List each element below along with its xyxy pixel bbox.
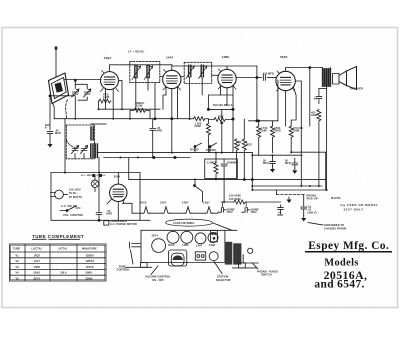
svg-text:150V: 150V [227,210,234,214]
svg-text:OCTAL: OCTAL [59,247,68,251]
svg-text:PICK-UP: PICK-UP [307,196,318,200]
svg-text:SELECTOR: SELECTOR [216,278,231,282]
svg-text:Espey Mfg. Co.: Espey Mfg. Co. [308,240,389,252]
svg-text:OHM: OHM [293,129,299,133]
svg-text:250MMF: 250MMF [227,161,238,165]
svg-text:OHM: OHM [311,113,317,117]
svg-text:NOTE:: NOTE: [331,196,342,200]
svg-text:14B6: 14B6 [222,55,230,59]
svg-text:SWITCH: SWITCH [261,273,272,277]
svg-text:14Q7: 14Q7 [203,200,210,204]
svg-text:50A5: 50A5 [34,271,41,275]
svg-text:MFD: MFD [263,161,269,165]
svg-text:Cg USED ON MODEL: Cg USED ON MODEL [341,203,379,207]
svg-text:12BA6: 12BA6 [86,259,95,263]
svg-text:50B5: 50B5 [86,271,93,275]
svg-text:(599 V): (599 V) [308,211,317,215]
svg-text:1/2W: 1/2W [103,95,110,99]
svg-text:MFD: MFD [278,213,284,217]
svg-text:14A7: 14A7 [160,200,167,204]
svg-text:POT.: POT. [218,115,224,119]
svg-text:50A5: 50A5 [168,243,175,247]
svg-text:.002 MFD: .002 MFD [262,72,274,76]
svg-text:K: K [239,143,241,147]
svg-text:14B7: 14B7 [182,200,189,204]
svg-text:SPEAKER: SPEAKER [350,87,363,91]
svg-text:PHONO: PHONO [206,148,216,152]
svg-text:14Q7: 14Q7 [104,56,112,60]
svg-text:CONTROL: CONTROL [117,268,131,272]
svg-text:35W4: 35W4 [86,277,94,281]
svg-text:35L6: 35L6 [61,271,68,275]
svg-text:6547 ONLY: 6547 ONLY [344,207,364,211]
svg-text:14Q7: 14Q7 [209,243,216,247]
svg-text:V4: V4 [16,271,20,275]
svg-text:MEG: MEG [246,143,252,147]
svg-text:OHM: OHM [274,129,280,133]
svg-text:VOL. CONTROL: VOL. CONTROL [63,213,84,217]
svg-text:V1: V1 [16,253,20,257]
svg-text:12BE6: 12BE6 [86,253,95,257]
svg-text:I.F. = 455 KC: I.F. = 455 KC [128,50,144,54]
svg-text:14Q7: 14Q7 [34,253,41,257]
svg-text:14A7: 14A7 [34,259,41,263]
svg-text:A.C. SWITCH ON VOL.: A.C. SWITCH ON VOL. [81,174,106,177]
svg-text:LOCTAL: LOCTAL [32,247,43,251]
svg-text:12AT6: 12AT6 [86,265,94,269]
svg-text:OHM: OHM [195,124,201,128]
svg-text:ON - OFF: ON - OFF [152,278,164,282]
svg-text:25 WATTS: 25 WATTS [69,195,82,199]
svg-text:14A7: 14A7 [166,56,174,60]
svg-text:35Y4: 35Y4 [114,175,121,179]
svg-text:105-125V: 105-125V [69,188,81,192]
svg-text:1/2W: 1/2W [136,104,143,108]
svg-text:A.C. SW. ON: A.C. SW. ON [61,204,77,208]
svg-text:V5: V5 [16,277,20,281]
svg-text:TUBE COMPLEMENT: TUBE COMPLEMENT [32,234,84,239]
svg-text:150 OHM: 150 OHM [229,197,241,201]
svg-text:V3: V3 [16,265,20,269]
svg-text:MFD: MFD [285,161,291,165]
svg-text:and 6547.: and 6547. [314,279,364,291]
svg-text:500,000 MEG.A: 500,000 MEG.A [213,103,233,107]
svg-text:14B6: 14B6 [34,265,41,269]
svg-text:.02: .02 [313,97,317,101]
svg-text:2.2MEG: 2.2MEG [207,161,217,165]
svg-text:TUBE: TUBE [13,247,21,251]
svg-text:OHM: OHM [261,129,267,133]
svg-text:MFD: MFD [107,212,113,216]
svg-text:MFD: MFD [55,131,61,135]
svg-text:50A5: 50A5 [280,55,288,59]
svg-text:50-60 ~: 50-60 ~ [69,191,79,195]
svg-text:K: K [45,126,47,130]
svg-text:35Y4: 35Y4 [34,277,41,281]
svg-text:V2: V2 [16,259,20,263]
svg-text:35Y4: 35Y4 [152,234,159,238]
svg-text:MFD: MFD [157,129,163,133]
svg-text:LOOP ANTENNA: LOOP ANTENNA [173,221,194,225]
svg-text:CHASSIS FRAME: CHASSIS FRAME [324,226,347,230]
svg-text:Models: Models [324,257,358,268]
svg-text:150V: 150V [251,210,258,214]
svg-text:50A5: 50A5 [140,200,147,204]
svg-text:14B6: 14B6 [182,243,189,247]
svg-text:A.C. PHONO MOTOR: A.C. PHONO MOTOR [110,222,137,226]
svg-text:MINIATURE: MINIATURE [82,247,97,251]
svg-text:RADIO: RADIO [190,148,199,152]
svg-text:14A7: 14A7 [196,244,203,248]
